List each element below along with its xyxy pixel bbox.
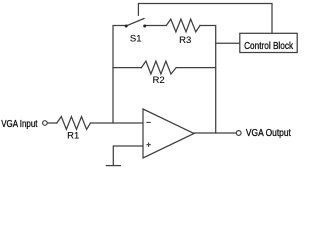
wire op-amp output: [194, 132, 236, 134]
wire R2 left: [113, 67, 141, 69]
wire R2 right: [176, 67, 216, 69]
wire R1 to op-amp inverting input: [91, 122, 144, 124]
resistor R3: [166, 19, 200, 32]
op-amp plus sign: [146, 143, 150, 147]
wire S1 to R3: [145, 25, 167, 27]
ground: [106, 165, 120, 167]
op-amp U1: [143, 109, 194, 158]
resistor R2: [141, 61, 176, 74]
wire left rail (inverting node): [113, 26, 126, 124]
input terminal circle: [43, 121, 48, 126]
svg-text:R3: R3: [179, 35, 191, 46]
wire control-block left to right rail: [216, 42, 240, 44]
svg-text:Control Block: Control Block: [244, 41, 294, 52]
switch S1 contact dots: [125, 25, 128, 28]
svg-text:VGA Input: VGA Input: [1, 119, 38, 130]
wire input terminal to R1: [47, 122, 57, 124]
op-amp minus sign: [146, 121, 150, 123]
svg-text:R1: R1: [67, 131, 79, 142]
switch S1 lever: [126, 19, 144, 27]
wire control-line from top to switch S1: [138, 4, 272, 34]
svg-text:S1: S1: [130, 34, 142, 45]
resistor R1: [57, 117, 91, 130]
wire right rail (output node): [200, 26, 216, 134]
output terminal circle: [236, 131, 241, 136]
wire op-amp non-inverting input to ground: [113, 146, 143, 165]
svg-text:R2: R2: [153, 75, 165, 86]
svg-text:VGA Output: VGA Output: [246, 128, 291, 139]
control block: [240, 33, 297, 52]
